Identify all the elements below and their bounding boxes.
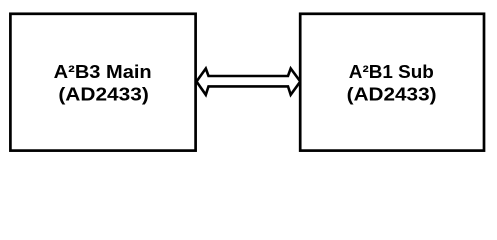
wire: bidirectional A2B bus arrow between U1 and U2 xyxy=(197,69,301,95)
block U1: A2B3 Main (AD2433) xyxy=(10,14,195,151)
svg-text:(AD2433): (AD2433) xyxy=(347,84,437,104)
svg-text:A²B1 Sub: A²B1 Sub xyxy=(349,62,434,82)
block U2: A2B1 Sub (AD2433) xyxy=(300,14,484,151)
svg-text:A²B3 Main: A²B3 Main xyxy=(54,62,152,82)
svg-text:(AD2433): (AD2433) xyxy=(58,84,149,104)
